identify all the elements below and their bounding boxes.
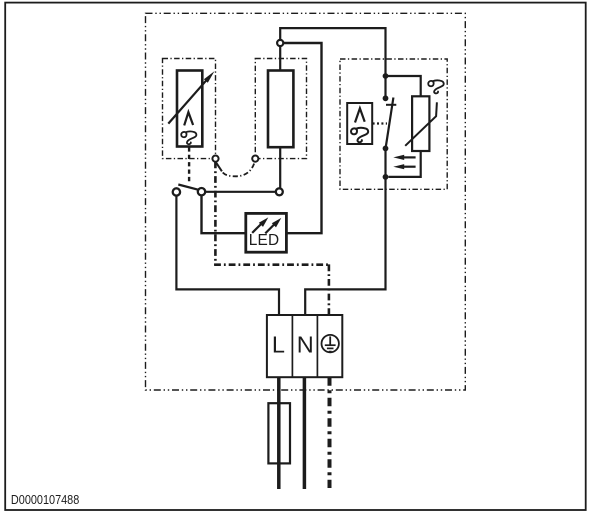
wire: switch to heater bottom node — [205, 191, 275, 193]
safety limiter switch F1 blade — [386, 98, 394, 149]
enclosure (appliance housing boundary, dash-dot-dot) — [146, 13, 466, 390]
mechanical link (dashed) thermostat to switch — [188, 147, 190, 183]
limiter box chevron symbol — [355, 108, 365, 122]
node X2 (heater bottom connector circle) — [276, 188, 283, 195]
plug contact P1 — [212, 156, 218, 162]
thermostat chevron symbol — [184, 112, 193, 125]
junction dot A — [383, 73, 389, 79]
thermostat T1 (adjustable, rectangle) — [177, 71, 202, 147]
wire: L path from switch down to terminal L — [176, 196, 279, 315]
node X1 (top connector circle) — [277, 40, 283, 46]
mechanical coupling arc (dash-dot) between plug contacts — [223, 163, 255, 177]
thermistor diagonal stroke — [405, 102, 437, 146]
safety limiter assembly box (dash-dot) — [340, 59, 447, 189]
wire: LED left branch — [202, 196, 246, 234]
plug contact P2 — [252, 156, 258, 162]
wire: N conductor below terminal — [303, 377, 307, 489]
wire: LED right branch to top node — [283, 43, 321, 233]
wire: PE conductor below terminal (heavy dash-dot) — [328, 377, 332, 488]
limiter box theta symbol — [351, 128, 368, 142]
wire: heater bottom lead — [279, 147, 281, 188]
wire: sensor bottom lead — [389, 151, 421, 177]
limiter sensor box (chevron + theta) — [347, 103, 372, 144]
wire: top bus from heater node to limiter column — [280, 28, 385, 98]
safety limiter switch tick — [386, 104, 396, 106]
reset arrow 2 — [403, 166, 416, 168]
terminal block X3 — [267, 315, 342, 377]
switch S1 left terminal — [173, 188, 180, 195]
junction dot B — [383, 95, 389, 101]
thermostat assembly box (dash-dot) — [163, 59, 216, 159]
earth link (heavy dash-dot) from plug contact to PE terminal — [214, 162, 217, 265]
reset arrow 1 — [403, 156, 416, 158]
heater assembly box (dash-dot) — [255, 59, 306, 159]
wire: sensor top lead — [386, 76, 421, 96]
thermostat theta symbol — [181, 132, 196, 145]
temperature sensor R2 (thermistor) — [412, 96, 429, 151]
svg-text:LED: LED — [249, 232, 280, 249]
heating element R1 — [268, 71, 293, 148]
plug contact P1 blade tick — [216, 162, 222, 171]
wire: heater top lead — [279, 46, 281, 70]
LED arrow 1 — [252, 223, 262, 233]
LED arrow 2 — [265, 224, 275, 234]
svg-text:N: N — [297, 332, 314, 358]
switch S1 blade — [178, 185, 198, 190]
wire: limiter output down to N terminal — [305, 148, 385, 315]
PE terminal symbol (earth in circle) — [322, 335, 339, 352]
thermostat adjustment arrow — [168, 79, 208, 124]
sensor theta symbol — [428, 80, 444, 93]
svg-text:L: L — [272, 332, 285, 358]
junction dot D — [383, 174, 389, 180]
LED indicator box — [246, 213, 287, 252]
switch S1 right terminal — [198, 188, 205, 195]
junction dot C — [383, 146, 389, 152]
dotted link from limiter box to switch blade — [373, 122, 387, 124]
wire: L conductor below terminal — [277, 377, 281, 489]
fuse F2 — [268, 403, 290, 463]
svg-text:D0000107488: D0000107488 — [11, 492, 80, 507]
